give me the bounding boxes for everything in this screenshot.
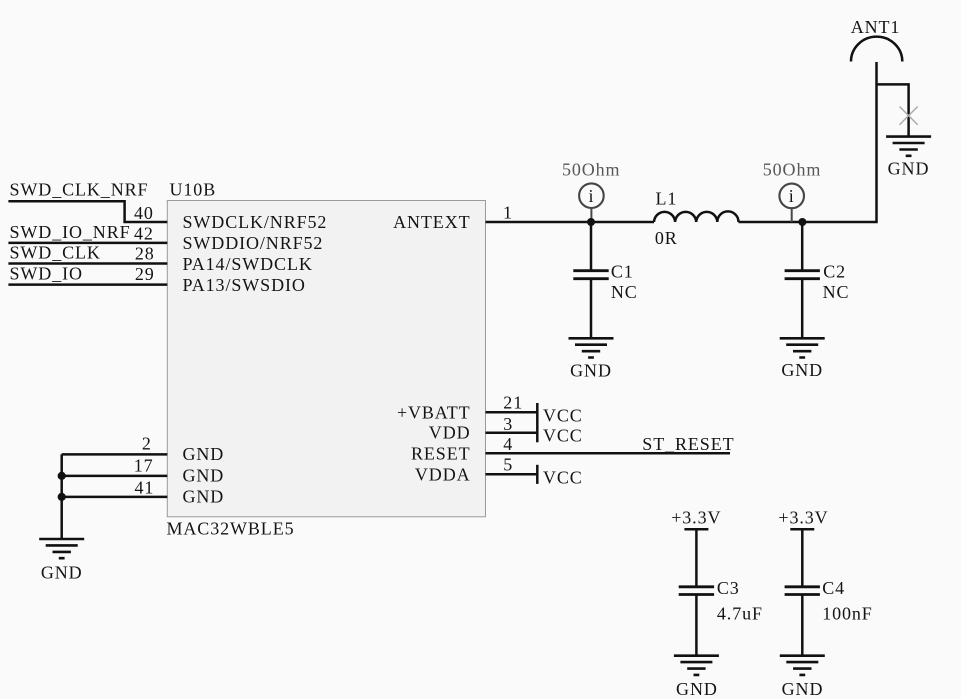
svg-text:SWD_CLK: SWD_CLK <box>10 243 101 263</box>
svg-text:i: i <box>789 186 795 206</box>
svg-text:+3.3V: +3.3V <box>778 508 828 528</box>
svg-text:ANT1: ANT1 <box>851 17 901 37</box>
svg-text:17: 17 <box>134 456 154 476</box>
svg-text:41: 41 <box>134 477 154 497</box>
svg-text:MAC32WBLE5: MAC32WBLE5 <box>167 518 295 538</box>
svg-text:GND: GND <box>781 360 823 380</box>
svg-text:C4: C4 <box>822 578 845 598</box>
svg-text:U10B: U10B <box>170 180 217 200</box>
svg-text:GND: GND <box>676 679 718 699</box>
svg-text:SWDCLK/NRF52: SWDCLK/NRF52 <box>183 212 328 232</box>
svg-text:NC: NC <box>611 282 638 302</box>
svg-text:VCC: VCC <box>543 406 583 426</box>
svg-text:GND: GND <box>888 158 930 178</box>
svg-text:GND: GND <box>570 360 612 380</box>
svg-text:SWD_CLK_NRF: SWD_CLK_NRF <box>10 180 149 200</box>
svg-text:4.7uF: 4.7uF <box>717 604 763 624</box>
svg-text:GND: GND <box>183 487 225 507</box>
svg-text:VCC: VCC <box>543 468 583 488</box>
svg-text:i: i <box>588 186 594 206</box>
svg-text:28: 28 <box>135 243 155 263</box>
svg-text:PA13/SWSDIO: PA13/SWSDIO <box>183 275 306 295</box>
svg-text:GND: GND <box>183 444 225 464</box>
svg-text:C1: C1 <box>611 262 634 282</box>
svg-text:29: 29 <box>135 264 155 284</box>
svg-text:RESET: RESET <box>411 443 471 463</box>
svg-text:1: 1 <box>503 202 513 222</box>
svg-text:GND: GND <box>41 562 83 582</box>
svg-text:4: 4 <box>503 434 513 454</box>
svg-text:42: 42 <box>134 224 154 244</box>
svg-text:VDDA: VDDA <box>415 464 471 484</box>
svg-text:GND: GND <box>782 679 824 699</box>
svg-text:100nF: 100nF <box>822 604 873 624</box>
svg-text:SWD_IO: SWD_IO <box>10 264 83 284</box>
svg-text:ANTEXT: ANTEXT <box>393 212 470 232</box>
svg-text:40: 40 <box>134 203 154 223</box>
svg-text:5: 5 <box>503 455 513 475</box>
svg-text:VDD: VDD <box>429 423 471 443</box>
svg-text:2: 2 <box>142 434 152 454</box>
svg-text:PA14/SWDCLK: PA14/SWDCLK <box>183 254 313 274</box>
svg-text:C3: C3 <box>717 578 740 598</box>
svg-text:L1: L1 <box>656 189 678 209</box>
svg-text:+3.3V: +3.3V <box>671 508 721 528</box>
svg-text:+VBATT: +VBATT <box>397 402 471 422</box>
svg-text:21: 21 <box>503 392 523 412</box>
svg-text:VCC: VCC <box>543 426 583 446</box>
svg-text:SWD_IO_NRF: SWD_IO_NRF <box>10 222 131 242</box>
svg-text:50Ohm: 50Ohm <box>763 160 822 180</box>
svg-text:0R: 0R <box>655 228 678 248</box>
svg-text:GND: GND <box>183 465 225 485</box>
svg-text:SWDDIO/NRF52: SWDDIO/NRF52 <box>183 233 324 253</box>
svg-text:NC: NC <box>823 282 850 302</box>
svg-text:ST_RESET: ST_RESET <box>642 434 734 454</box>
svg-text:50Ohm: 50Ohm <box>562 159 621 179</box>
svg-text:3: 3 <box>503 414 513 434</box>
svg-text:C2: C2 <box>823 262 846 282</box>
